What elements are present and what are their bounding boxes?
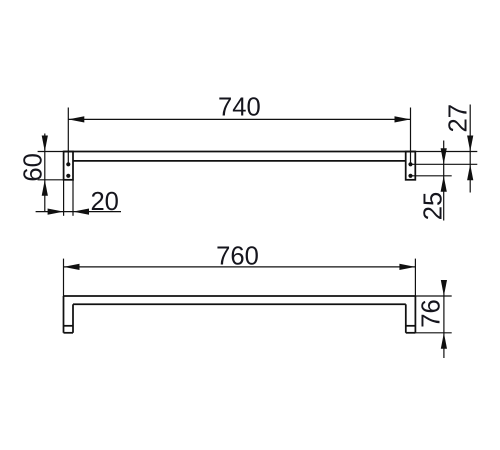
dimension line 20 [36, 211, 121, 213]
extension line right for 740 [410, 108, 412, 165]
right bracket screw hole lower [408, 174, 412, 178]
front view bar bottom line [73, 303, 406, 305]
arrow 25 bottom [441, 176, 447, 192]
towel bar top line (plan view) [64, 151, 416, 153]
dimension line 740 [68, 118, 410, 120]
extension line left for 20 [63, 180, 65, 216]
extension line hole2 for 25 [411, 175, 452, 177]
arrow 25 top [441, 148, 447, 164]
svg-text:740: 740 [218, 94, 261, 122]
front view right leg inner edge [405, 304, 407, 333]
dimension line 60 [44, 134, 46, 212]
extension line right for 760 [414, 259, 416, 296]
front view right foot top line [406, 325, 416, 327]
dimension line 27 [469, 105, 471, 193]
left bracket screw hole lower [66, 174, 70, 178]
svg-text:25: 25 [420, 192, 448, 220]
towel bar bottom line (plan view) [73, 160, 406, 162]
arrow 20 right [73, 209, 89, 215]
extension line top for 76 [415, 295, 451, 297]
arrow 76 bottom [441, 333, 447, 349]
extension line bar top for 27 [415, 151, 477, 153]
dimension line 760 [64, 266, 416, 268]
extension line bottom for 76 [415, 332, 451, 334]
extension line hole1 for 27 and 25 [411, 163, 478, 165]
front view right leg outer edge [414, 296, 416, 333]
arrow 740 right [395, 116, 411, 122]
arrow 27 top [467, 136, 473, 152]
arrow 60 top [42, 136, 48, 152]
arrow 740 left [68, 116, 84, 122]
arrow 20 left [48, 209, 64, 215]
front view outline: bar top [64, 295, 416, 297]
extension line left for 760 [63, 259, 65, 296]
arrow 760 left [64, 264, 80, 270]
right wall bracket (plan view) [406, 152, 416, 180]
extension line left for 740 [67, 108, 69, 165]
svg-text:60: 60 [20, 153, 48, 181]
dimension line 25 [443, 141, 445, 221]
arrow 27 bottom [467, 164, 473, 180]
left wall bracket (plan view) [64, 152, 73, 180]
extension line right for 20 [72, 180, 74, 216]
dimension line 76 [443, 285, 445, 358]
svg-text:760: 760 [216, 242, 259, 270]
extension line top for 60 [38, 151, 64, 153]
svg-text:27: 27 [444, 104, 472, 132]
left bracket screw hole upper [66, 162, 70, 166]
front view left leg outer edge [63, 296, 65, 333]
front view left leg inner edge [72, 304, 74, 333]
front view left foot bottom line [64, 332, 74, 334]
arrow 76 top [441, 280, 447, 296]
svg-text:76: 76 [418, 299, 446, 327]
svg-text:20: 20 [90, 188, 118, 216]
front view right foot bottom line [406, 332, 416, 334]
front view left foot top line [64, 325, 74, 327]
arrow 60 bottom [42, 180, 48, 196]
arrow 760 right [399, 264, 415, 270]
extension line bottom for 60 [38, 179, 64, 181]
right bracket screw hole upper [408, 162, 412, 166]
